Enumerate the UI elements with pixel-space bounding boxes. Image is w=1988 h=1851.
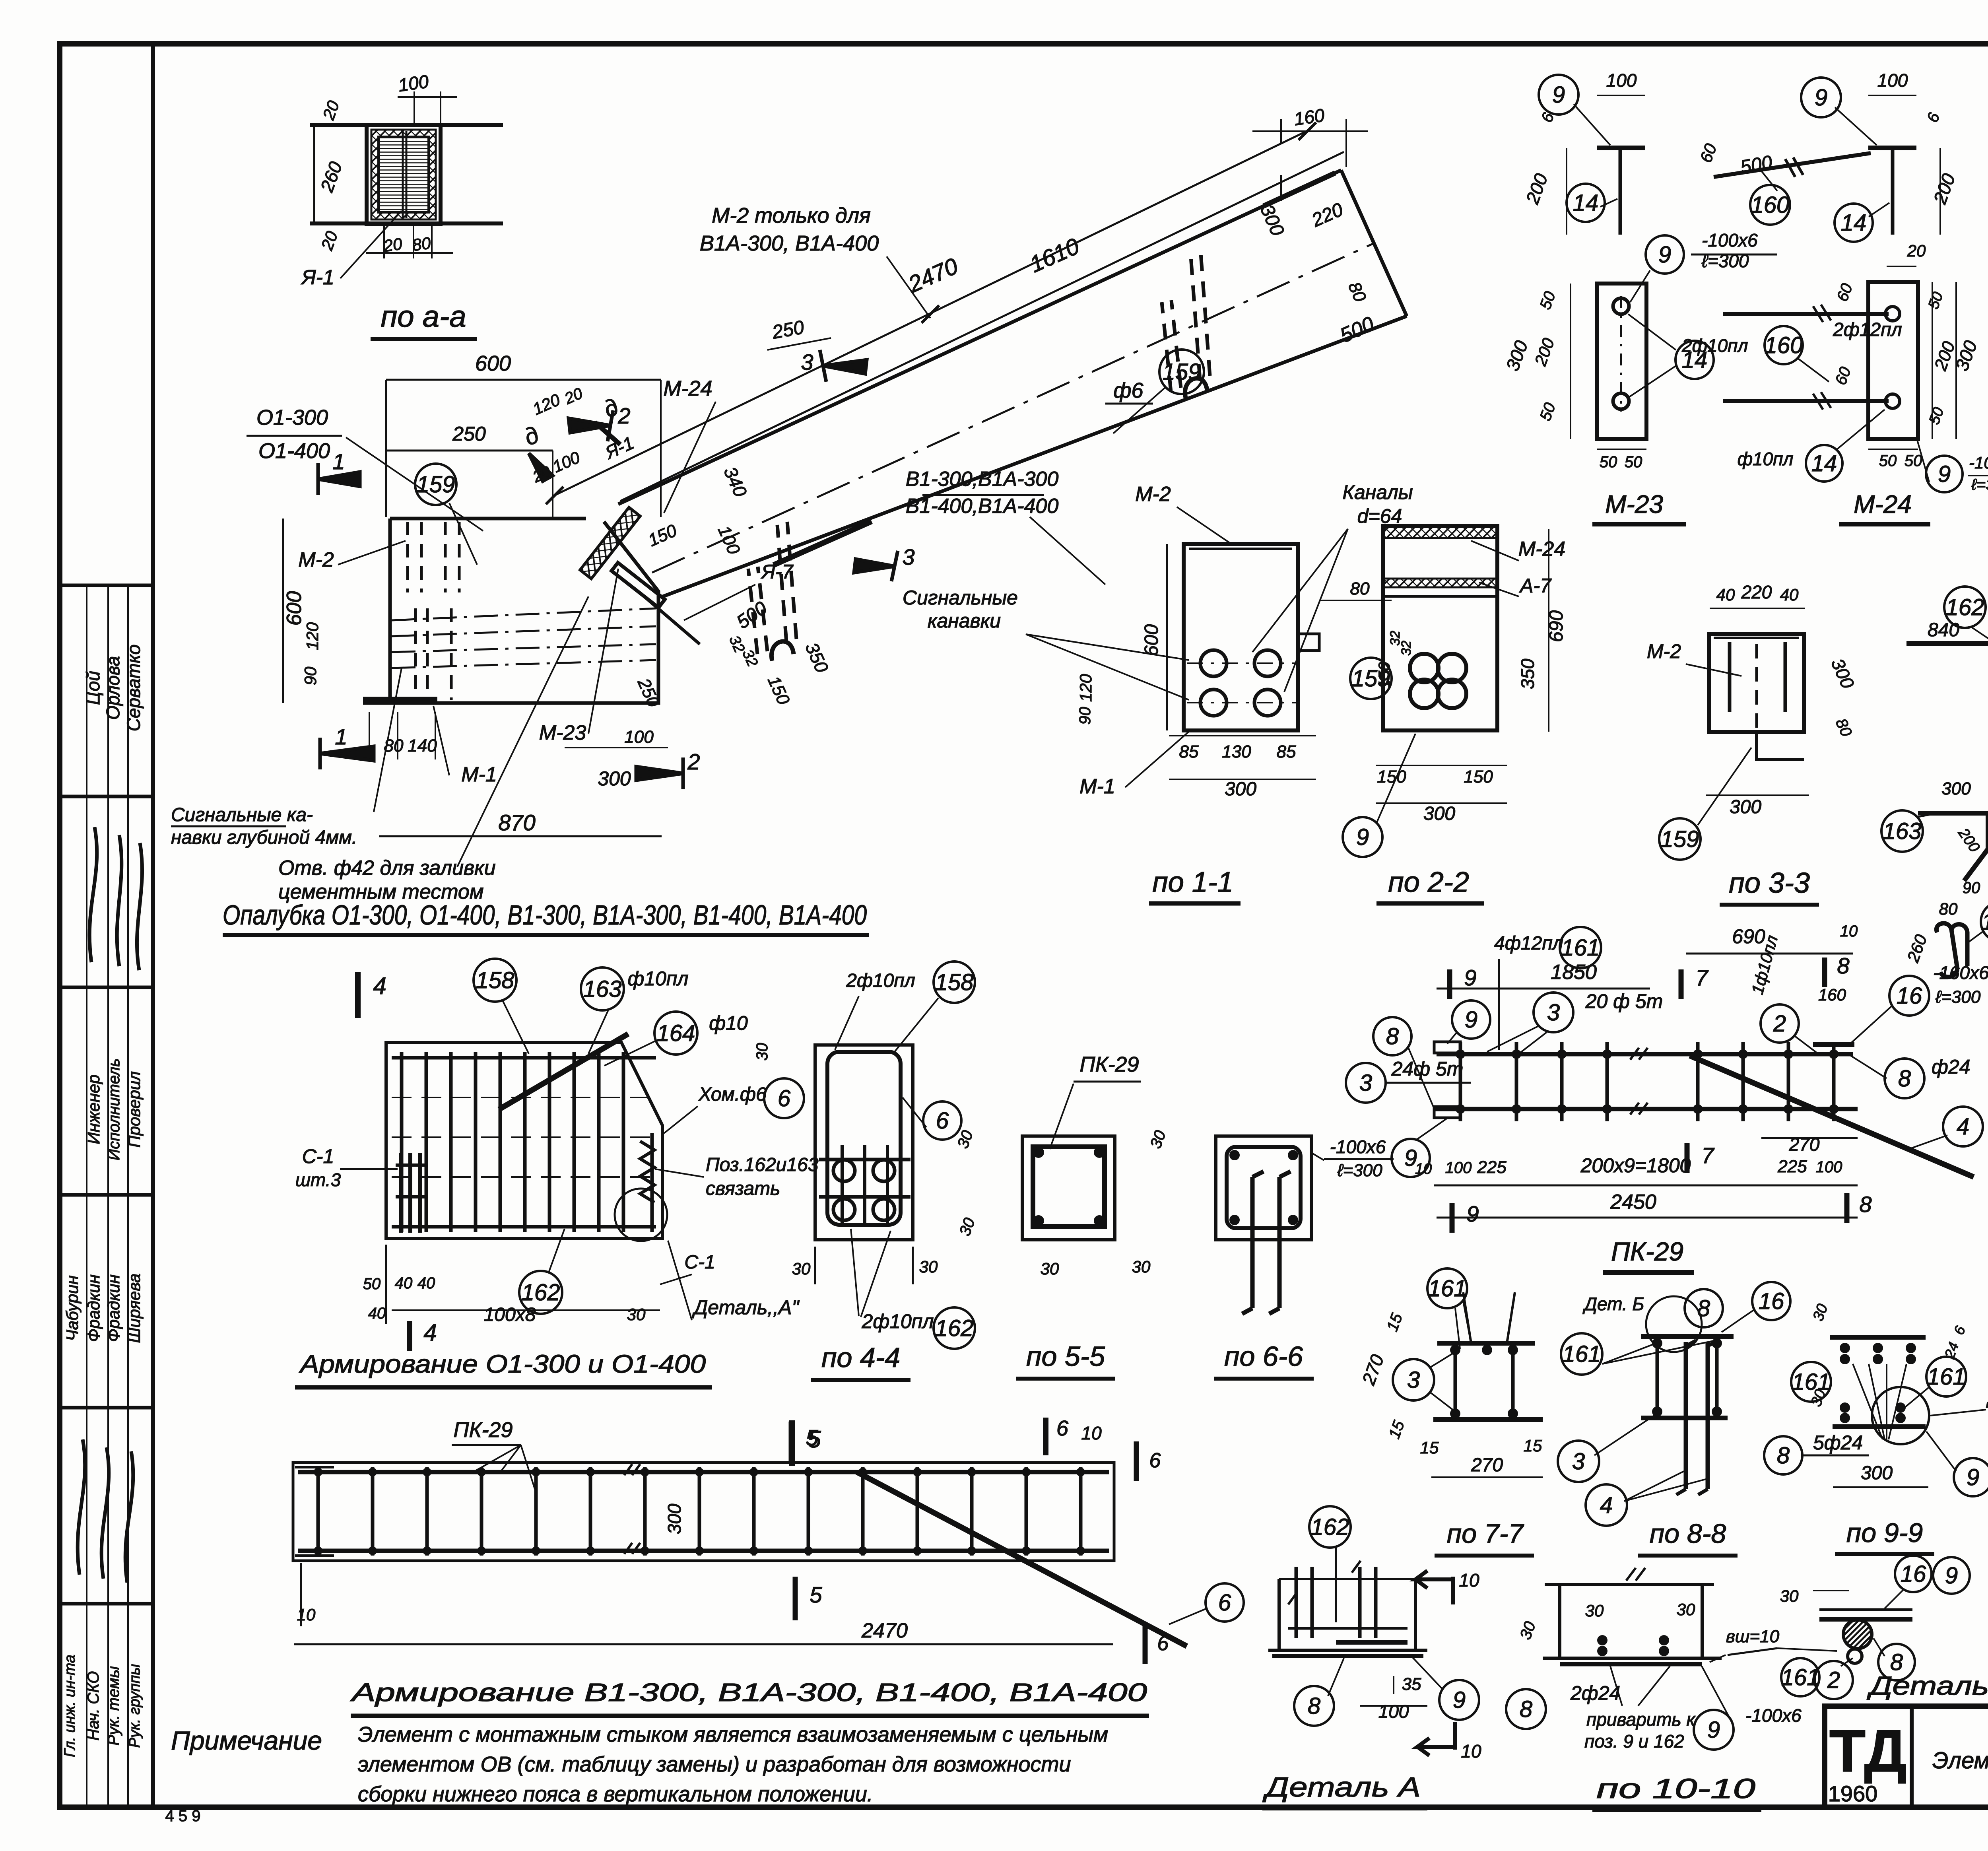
svg-text:7: 7 [1695,965,1708,990]
svg-text:225: 225 [1477,1158,1507,1177]
svg-text:Фрадкин: Фрадкин [84,1274,103,1342]
svg-text:150: 150 [1376,662,1393,689]
svg-text:ℓ=300: ℓ=300 [1337,1161,1382,1180]
svg-text:30: 30 [1677,1600,1695,1619]
svg-text:Дет. Б: Дет. Б [1582,1294,1644,1314]
svg-text:80: 80 [1939,899,1958,918]
svg-text:2ф12пл: 2ф12пл [1833,319,1902,340]
svg-text:2ф10пл: 2ф10пл [1681,335,1748,356]
svg-text:40: 40 [417,1274,435,1292]
svg-text:40: 40 [368,1305,386,1322]
svg-text:по 10-10: по 10-10 [1596,1773,1755,1804]
ПК-29 ladder rails [1437,1052,1853,1057]
svg-text:Я-7: Я-7 [761,561,794,583]
svg-text:Цой: Цой [83,671,103,705]
ПК-29 section marks 9 7 8 [1447,969,1452,999]
svg-text:С-1: С-1 [302,1145,334,1167]
svg-text:ℓ=300: ℓ=300 [1935,987,1981,1007]
svg-text:по 1-1: по 1-1 [1152,866,1233,898]
svg-text:М-24: М-24 [1518,538,1565,561]
svg-text:ф24: ф24 [1932,1056,1970,1078]
svg-text:по 8-8: по 8-8 [1650,1519,1726,1549]
ПК-29 label 9 plate upper [1452,1000,1490,1039]
beam top plate 160 [1264,173,1335,206]
svg-text:1960: 1960 [1828,1781,1878,1806]
ПК-29 break marks [1630,1048,1648,1115]
svg-text:Каналы: Каналы [1342,481,1413,503]
ПК-29 left end plates [1434,1042,1460,1053]
по 2-2 channels cluster [1410,654,1439,682]
svg-text:10: 10 [1840,923,1858,940]
опалубка А-7 angle bar [612,563,665,608]
svg-text:М-2: М-2 [298,548,334,571]
svg-text:4ф12пл: 4ф12пл [1494,933,1563,954]
ПК-29 dims below [1434,1185,1858,1187]
svg-text:8: 8 [1859,1192,1872,1217]
svg-text:5: 5 [806,1425,818,1450]
svg-text:16: 16 [1759,1288,1784,1314]
beam dashed hook 1 [748,522,796,654]
ПК-29 right end plate [1813,1042,1854,1047]
армирование labels [474,959,516,1002]
section по 4-4 outer [815,1045,913,1240]
beam upper plate at 3 mark [774,521,872,565]
опалубка М-2 dashed anchors [406,522,409,592]
svg-text:7: 7 [1701,1143,1714,1168]
svg-text:по 7-7: по 7-7 [1447,1519,1524,1549]
svg-text:32: 32 [1399,641,1414,656]
svg-text:20: 20 [382,234,404,255]
section по а-а hatched liner [371,130,436,219]
svg-text:Сигнальные ка-: Сигнальные ка- [171,804,313,825]
svg-text:161: 161 [1563,1341,1601,1367]
армирование О1-300 cage outline [386,1043,662,1239]
svg-text:300: 300 [1861,1463,1893,1484]
svg-text:В1-400,В1А-400: В1-400,В1А-400 [906,495,1059,518]
svg-text:120: 120 [303,622,322,650]
svg-text:600: 600 [1141,624,1162,656]
svg-text:6: 6 [936,1108,949,1134]
svg-text:М-24: М-24 [663,377,712,400]
svg-text:300: 300 [1423,803,1455,824]
svg-text:162: 162 [522,1280,560,1305]
svg-text:Деталь,,А": Деталь,,А" [692,1296,800,1319]
ПК-29 label 8 left [1373,1017,1411,1055]
signature strip blocks [60,584,153,587]
svg-text:300: 300 [1941,779,1971,798]
svg-text:навки глубиной 4мм.: навки глубиной 4мм. [171,827,357,848]
svg-text:ПК-29: ПК-29 [453,1418,513,1442]
svg-text:3: 3 [1547,1000,1560,1026]
svg-text:ТД: ТД [1829,1717,1907,1784]
по 4-4 labels [923,1101,961,1140]
svg-text:Проверил: Проверил [125,1071,144,1148]
svg-text:2: 2 [1827,1667,1840,1693]
svg-text:вш=10: вш=10 [1726,1627,1780,1646]
армирование В1 dim 2470 [294,1643,1113,1645]
svg-text:6: 6 [1218,1590,1231,1616]
svg-text:6: 6 [778,1086,791,1111]
svg-text:50: 50 [1879,452,1897,470]
svg-text:160: 160 [1818,985,1846,1004]
svg-text:8: 8 [1520,1696,1532,1722]
svg-text:2450: 2450 [1610,1191,1656,1214]
section по 2-2 body [1383,526,1497,730]
svg-text:160: 160 [1293,105,1326,129]
опалубка М-1 base plate [363,697,437,701]
svg-text:10: 10 [1415,1161,1432,1177]
svg-text:В1-300,В1А-300: В1-300,В1А-300 [906,468,1059,491]
detail 163 angle [1881,810,1923,852]
svg-text:Деталь А: Деталь А [1262,1771,1421,1802]
svg-text:М-2 только для: М-2 только для [712,204,871,227]
ПК-29 right labels 16 8 4 [1889,976,1929,1016]
svg-text:8: 8 [1697,1296,1710,1321]
армирование horizontal bars [392,1056,656,1060]
svg-text:16: 16 [1897,983,1922,1009]
svg-text:А-7: А-7 [1519,575,1552,597]
svg-text:3: 3 [1359,1070,1372,1096]
svg-text:50: 50 [1600,453,1617,471]
svg-text:270: 270 [1789,1134,1820,1155]
svg-text:9: 9 [1465,1007,1477,1033]
svg-text:4: 4 [1600,1492,1613,1518]
svg-text:2ф10пл: 2ф10пл [862,1310,934,1332]
svg-text:10: 10 [297,1605,316,1624]
section по 6-6 outer [1216,1136,1311,1240]
svg-text:80: 80 [1350,579,1370,598]
ПК-29 leader to lower plate [1415,1118,1447,1140]
армирование В1 verticals [316,1467,320,1556]
svg-text:по 3-3: по 3-3 [1729,867,1810,899]
svg-text:1: 1 [335,724,347,749]
svg-text:30: 30 [1780,1587,1799,1605]
М-23 plate dims [1570,284,1571,439]
svg-text:по 6-6: по 6-6 [1224,1341,1303,1372]
svg-text:Деталь Б: Деталь Б [1866,1671,1988,1700]
svg-text:по 2-2: по 2-2 [1388,866,1469,898]
svg-text:20: 20 [1907,241,1926,260]
svg-text:40: 40 [395,1274,413,1292]
svg-text:85: 85 [1179,742,1199,761]
svg-text:270: 270 [1471,1455,1503,1476]
section flags 3 [820,350,867,382]
svg-text:100: 100 [1378,1701,1409,1722]
svg-text:90: 90 [1963,879,1980,897]
Деталь Б drawing [1819,1608,1912,1611]
svg-text:9: 9 [1815,85,1827,111]
опалубка beam lower-left hatched plate М-23 [580,507,641,579]
svg-text:30: 30 [1041,1259,1059,1278]
section flags 1 2 [318,463,360,495]
section по 9-9 plates [1830,1335,1926,1340]
beam right end [1341,170,1407,316]
по 6-6 inner hooks [1242,1171,1291,1314]
svg-text:150: 150 [1377,767,1406,787]
left strip divider [151,44,155,1807]
svg-text:162: 162 [1946,594,1984,620]
svg-text:9: 9 [1938,461,1951,487]
svg-text:3: 3 [1407,1367,1420,1393]
svg-text:300: 300 [598,767,631,790]
svg-text:30: 30 [1132,1257,1151,1276]
svg-text:О1-400: О1-400 [258,439,330,463]
svg-text:9: 9 [1967,1464,1979,1490]
svg-text:9: 9 [1466,1201,1479,1226]
svg-text:ПК-29: ПК-29 [1611,1237,1683,1266]
svg-text:140: 140 [408,736,437,756]
svg-text:30: 30 [792,1259,811,1278]
svg-text:ф6: ф6 [1113,379,1143,402]
section 5 6 flags bottom [789,1420,795,1466]
svg-text:Элемент с монтажным стыком явл: Элемент с монтажным стыком является взаи… [358,1723,1108,1746]
svg-text:100: 100 [1606,70,1637,91]
svg-text:9: 9 [1658,242,1671,268]
svg-text:ПК-29: ПК-29 [1079,1053,1139,1076]
svg-text:40: 40 [1780,585,1799,604]
svg-text:Серватко: Серватко [123,645,144,732]
армирование В1 ladder outline [293,1463,1114,1561]
svg-text:2ф10пл: 2ф10пл [846,970,915,991]
М-23 plate with holes [1597,284,1646,439]
svg-text:М-24: М-24 [1854,490,1912,519]
section 4 flags [355,972,361,1018]
svg-text:ф10пл: ф10пл [627,967,688,990]
svg-text:поз. 9 и 162: поз. 9 и 162 [1584,1731,1684,1752]
svg-text:по а-а: по а-а [381,300,466,334]
svg-text:50: 50 [1625,453,1642,471]
по а-а dimensions [414,91,415,125]
svg-text:Инженер: Инженер [84,1074,103,1144]
svg-text:840: 840 [1928,620,1959,641]
svg-text:600: 600 [475,352,511,375]
svg-text:9: 9 [1945,1563,1958,1589]
section по 3-3 body М-2 plate [1709,634,1804,732]
svg-text:6: 6 [1149,1449,1161,1472]
section по 1-1 body [1184,544,1298,730]
Деталь А flags 10 [1415,1571,1453,1604]
svg-text:О1-300: О1-300 [256,406,328,429]
svg-text:1850: 1850 [1551,961,1597,984]
svg-text:элементом ОВ (см. таблицу зам: элементом ОВ (см. таблицу замены) и разр… [358,1752,1071,1776]
svg-text:-100х6: -100х6 [1745,1705,1802,1726]
signatures block 2 [78,1439,133,1583]
ПК-29 dim 1850 and 690 above [1437,988,1650,990]
svg-text:100: 100 [1816,1158,1842,1176]
svg-text:50: 50 [363,1275,381,1293]
svg-text:шт.3: шт.3 [295,1169,341,1190]
beam centerline [652,243,1374,573]
svg-text:161: 161 [1428,1276,1467,1301]
svg-text:М-2: М-2 [1647,640,1681,662]
svg-text:10: 10 [1459,1570,1479,1591]
армирование В1 break marks [624,1464,640,1554]
svg-text:8: 8 [1308,1693,1320,1719]
svg-text:40: 40 [1716,585,1735,604]
svg-text:Примечание: Примечание [171,1726,322,1755]
svg-text:164: 164 [657,1020,695,1046]
svg-text:-100х6: -100х6 [1702,230,1758,251]
svg-text:160: 160 [1765,332,1803,358]
svg-text:по 5-5: по 5-5 [1026,1341,1105,1372]
svg-text:Исполнитель: Исполнитель [105,1059,123,1161]
svg-text:канавки: канавки [928,610,1001,632]
опалубка inclined duct dash-dot lines [392,608,656,620]
svg-text:100: 100 [397,71,430,95]
svg-text:по 4-4: по 4-4 [821,1342,900,1373]
svg-text:М-2: М-2 [1135,483,1171,506]
svg-text:159: 159 [1661,826,1699,852]
svg-text:Чабурин: Чабурин [63,1275,82,1341]
svg-text:80: 80 [411,233,432,254]
svg-text:90: 90 [1076,707,1094,725]
svg-text:сборки нижнего пояса в вертика: сборки нижнего пояса в вертикальном поло… [358,1782,873,1806]
svg-text:ф10пл: ф10пл [1738,449,1794,469]
svg-text:14: 14 [1841,210,1867,236]
svg-text:6: 6 [1056,1416,1069,1440]
армирование В1 section marks 5 6 [789,1422,794,1463]
svg-text:3: 3 [801,350,813,375]
svg-text:24ф 5т: 24ф 5т [1391,1058,1464,1080]
армирование right zigzag 162-163 [640,1141,654,1202]
svg-text:приварить к: приварить к [1586,1709,1696,1730]
svg-text:Армирование О1-300 и О1-400: Армирование О1-300 и О1-400 [299,1350,706,1378]
beam dashed hook 2 [1162,253,1210,392]
svg-text:161: 161 [1927,1364,1966,1390]
svg-text:100: 100 [1877,70,1908,91]
армирование C-1 left bundle [399,1153,403,1233]
ПК-29 label 3 24ф5т [1346,1063,1386,1103]
svg-text:300: 300 [1730,796,1761,818]
svg-text:-100х6: -100х6 [1969,453,1988,472]
svg-text:d=64: d=64 [1357,505,1402,527]
svg-text:14: 14 [1573,190,1599,216]
svg-text:14: 14 [1811,451,1837,476]
svg-text:М-23: М-23 [539,721,586,744]
svg-text:150: 150 [1464,767,1493,787]
svg-text:Отв. ф42 для заливки: Отв. ф42 для заливки [278,857,496,880]
svg-text:Элементы ферм О1-300, О1-400,: Элементы ферм О1-300, О1-400, В1-300, [1932,1748,1988,1773]
svg-text:8: 8 [1386,1024,1399,1049]
beam top edge [618,170,1341,504]
svg-text:4: 4 [373,973,386,999]
ПК-29 label 3 20ф5т [1534,993,1573,1032]
опалубка dim 600 870 etc [282,519,284,703]
по 4-4 inner grid and circles [819,1158,911,1161]
svg-text:4: 4 [1957,1114,1969,1140]
М-24 plate with rods [1868,282,1918,439]
svg-text:Я-1: Я-1 [301,266,334,289]
svg-text:6: 6 [1157,1632,1169,1655]
svg-text:2: 2 [1773,1011,1786,1037]
dimension line 2470/1610 [553,130,1308,496]
svg-text:связать: связать [706,1178,780,1199]
section по а-а outer square [310,123,503,127]
svg-text:250: 250 [452,423,486,445]
svg-text:90: 90 [301,666,320,685]
svg-text:ф10: ф10 [709,1012,748,1034]
svg-text:8: 8 [1837,953,1849,978]
svg-text:3: 3 [902,544,914,569]
svg-text:85: 85 [1277,742,1296,761]
svg-text:600: 600 [283,591,306,626]
svg-text:15: 15 [1524,1436,1542,1455]
svg-text:1: 1 [332,449,345,474]
опалубка left block outline [390,517,586,521]
svg-text:200х9=1800: 200х9=1800 [1580,1154,1691,1177]
signature strip column lines [86,585,87,1807]
svg-text:М-1: М-1 [461,763,497,786]
svg-text:Армирование В1-300, В1А-300, В: Армирование В1-300, В1А-300, В1-400, В1А… [349,1678,1147,1707]
svg-text:10: 10 [1081,1423,1102,1443]
svg-text:30: 30 [627,1305,646,1324]
svg-text:30: 30 [753,1043,771,1061]
svg-text:В1А-300, В1А-400: В1А-300, В1А-400 [700,231,879,255]
svg-text:100: 100 [624,727,654,747]
svg-text:Сигнальные: Сигнальные [903,587,1018,609]
svg-text:Рук. темы: Рук. темы [105,1666,122,1746]
svg-text:3: 3 [1572,1449,1585,1474]
svg-text:162: 162 [935,1315,974,1341]
svg-text:20 ф 5т: 20 ф 5т [1585,990,1663,1012]
svg-text:300: 300 [1225,779,1256,800]
svg-text:4: 4 [423,1319,437,1346]
svg-text:5: 5 [810,1582,822,1607]
svg-text:4 5 9: 4 5 9 [165,1807,201,1825]
svg-text:Орлова: Орлова [103,656,123,720]
svg-text:158: 158 [476,967,514,993]
svg-text:по 9-9: по 9-9 [1846,1518,1923,1548]
svg-text:8: 8 [1777,1443,1790,1468]
ПК-29 verticals [1459,1042,1462,1121]
svg-text:100х8: 100х8 [484,1304,536,1325]
section по 5-5 outer [1022,1136,1115,1240]
beam right end dims 160 300 220 80 500 [1280,119,1282,143]
beam bottom edge [661,316,1407,597]
svg-text:8: 8 [1898,1066,1911,1092]
армирование cage bars vertical [400,1052,404,1232]
svg-text:161: 161 [1561,935,1600,961]
svg-text:Опалубка О1-300, О1-400, В1-30: Опалубка О1-300, О1-400, В1-300, В1А-300… [223,899,867,930]
section по 10-10 drawing [1545,1583,1714,1586]
svg-text:50: 50 [1905,452,1922,470]
svg-text:350: 350 [1517,658,1538,689]
svg-text:Поз.162и163: Поз.162и163 [706,1154,819,1175]
detail 159 S-hook [1936,923,1967,977]
svg-text:-100х6: -100х6 [1330,1136,1386,1157]
деталь М-23 T-section [1597,146,1645,150]
svg-text:9: 9 [1464,965,1476,990]
svg-text:220: 220 [1741,582,1772,602]
Деталь А drawing [1279,1578,1417,1580]
армирование В1 left end plates [295,1466,334,1468]
detail 162 angle [1944,587,1986,628]
svg-text:9: 9 [1356,824,1369,850]
svg-text:870: 870 [498,810,535,835]
ПК-29 label 2 circle [1761,1004,1799,1043]
section по 7-7 cage [1437,1341,1535,1346]
svg-text:2ф24: 2ф24 [1570,1682,1620,1704]
svg-text:Рук. группы: Рук. группы [126,1664,143,1748]
svg-text:130: 130 [1222,742,1251,761]
svg-text:Нач. СКО: Нач. СКО [85,1671,102,1741]
svg-text:163: 163 [1883,818,1922,844]
svg-text:Хом.ф6: Хом.ф6 [698,1084,767,1105]
ТД logo box [1910,1706,1914,1807]
svg-text:9: 9 [1707,1717,1720,1743]
svg-text:10: 10 [1461,1741,1481,1762]
title block [1825,1706,1988,1807]
